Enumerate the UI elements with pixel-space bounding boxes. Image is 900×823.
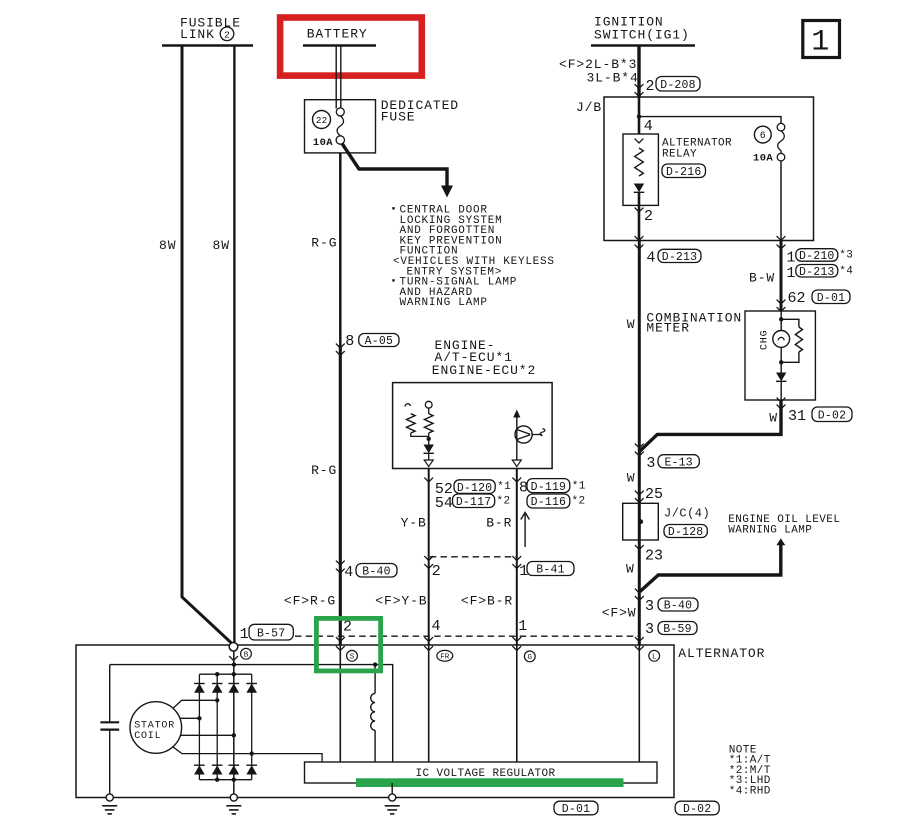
meter diode xyxy=(776,373,786,382)
connector marks at alternator L xyxy=(635,637,644,641)
branch arrow to central door locking note xyxy=(342,144,453,198)
svg-text:*2: *2 xyxy=(572,496,586,508)
node bus to rectifier xyxy=(232,662,236,666)
note text central door locking system xyxy=(392,205,554,310)
ECU input stub xyxy=(405,404,411,407)
node rectifier bottom bus b xyxy=(232,778,236,782)
svg-text:D-210: D-210 xyxy=(799,250,835,263)
connector marks at combination meter input xyxy=(777,300,786,304)
wire alternator FR internal xyxy=(428,645,430,762)
svg-text:2: 2 xyxy=(644,208,653,225)
svg-text:BATTERY: BATTERY xyxy=(307,27,368,42)
svg-text:2: 2 xyxy=(224,29,230,40)
wire meter output xyxy=(780,381,782,400)
ground G1 xyxy=(106,794,113,801)
connector marks at A-05 xyxy=(336,344,345,348)
svg-text:1: 1 xyxy=(811,25,829,59)
svg-text:3: 3 xyxy=(645,621,654,638)
ignition switch bus bar xyxy=(591,44,695,46)
svg-text:D-128: D-128 xyxy=(668,526,704,539)
regulator ground stub xyxy=(391,783,393,798)
alternator box xyxy=(76,645,674,798)
svg-text:31: 31 xyxy=(788,408,806,425)
field coil (rotor) xyxy=(371,665,375,762)
svg-text:A-05: A-05 xyxy=(365,335,393,348)
connector marks at alternator S xyxy=(336,637,345,641)
current direction arrow B-R xyxy=(521,513,530,548)
svg-text:6: 6 xyxy=(760,131,766,142)
connector marks at D-210 right xyxy=(777,236,786,240)
connector marks at B-40 xyxy=(336,561,345,565)
svg-text:R-G: R-G xyxy=(311,463,337,478)
svg-text:Y-B: Y-B xyxy=(401,515,427,530)
svg-text:IC VOLTAGE REGULATOR: IC VOLTAGE REGULATOR xyxy=(415,768,555,780)
title ENGINE A/T-ECU ENGINE-ECU xyxy=(432,338,536,378)
wire alternator B internal xyxy=(233,651,235,797)
fuse element symbol (J/B fuse) xyxy=(777,123,785,161)
wire IG1 inside J/B xyxy=(638,97,641,134)
svg-text:ENGINE-ECU*2: ENGINE-ECU*2 xyxy=(432,363,536,378)
wire branch to relay fuse xyxy=(639,117,781,124)
svg-text:G: G xyxy=(528,654,533,662)
wire B-W to combination meter xyxy=(780,241,783,312)
svg-text:D-01: D-01 xyxy=(817,292,845,305)
dashed harness boundary upper xyxy=(430,556,518,558)
svg-text:1: 1 xyxy=(786,249,795,266)
svg-text:WARNING LAMP: WARNING LAMP xyxy=(400,297,488,309)
ground G2 xyxy=(230,794,237,801)
terminal B circle xyxy=(229,643,238,652)
svg-text:LINK: LINK xyxy=(180,27,215,42)
svg-text:FUSE: FUSE xyxy=(381,110,416,125)
wire 8W right (fusible link to alternator B) xyxy=(233,46,235,644)
svg-text:D-02: D-02 xyxy=(683,803,711,816)
stator phase wire 2 xyxy=(180,716,202,720)
arrow to engine oil level warning lamp xyxy=(776,538,785,545)
node ECU resistor junction xyxy=(427,433,431,445)
stator coil xyxy=(130,702,182,754)
title IGNITION SWITCH(IG1) xyxy=(594,15,690,43)
node CHG top xyxy=(779,317,783,321)
node J/C(4) center xyxy=(638,519,643,524)
note block *1 A/T *2 M/T *3 LHD *4 RHD xyxy=(729,744,771,797)
svg-text:D-208: D-208 xyxy=(660,79,696,92)
connector marks at meter output xyxy=(777,398,786,402)
svg-text:3: 3 xyxy=(646,455,655,472)
ECU lamp terminal circle xyxy=(425,401,432,413)
svg-text:22: 22 xyxy=(316,115,328,126)
svg-text:D-120: D-120 xyxy=(457,482,493,495)
fuse number 22 circled xyxy=(313,111,331,129)
connector marks at D-213 left xyxy=(635,236,644,240)
connector D-128 xyxy=(664,525,707,540)
svg-text:D-213: D-213 xyxy=(662,251,698,264)
stator phase wire 4 to regulator xyxy=(173,747,322,762)
relay diode xyxy=(634,184,644,193)
green highlight bar xyxy=(356,778,624,787)
svg-text:J/B: J/B xyxy=(576,100,602,115)
svg-text:2: 2 xyxy=(343,619,352,636)
svg-text:FR: FR xyxy=(440,653,450,661)
green highlight box at terminal S xyxy=(316,618,380,671)
terminal label FR xyxy=(437,650,453,661)
rectifier diode bottom 3 xyxy=(229,764,240,766)
svg-text:L: L xyxy=(652,654,657,662)
node J/B branch junction xyxy=(637,114,641,118)
svg-text:*4: *4 xyxy=(839,266,853,278)
svg-text:4: 4 xyxy=(644,118,653,135)
svg-text:COIL: COIL xyxy=(134,731,161,742)
svg-text:23: 23 xyxy=(645,548,663,565)
wire thick oil lamp branch xyxy=(640,545,781,592)
connector D-216 xyxy=(662,164,706,179)
svg-text:2: 2 xyxy=(646,78,655,95)
connector mark below terminal B xyxy=(229,656,238,660)
svg-text:3: 3 xyxy=(645,598,654,615)
node rectifier bottom bus a xyxy=(215,778,219,782)
label ENGINE OIL LEVEL WARNING LAMP xyxy=(728,514,840,537)
svg-text:*2: *2 xyxy=(497,496,511,508)
svg-text:W: W xyxy=(769,411,778,426)
svg-text:*1: *1 xyxy=(572,481,586,493)
svg-text:SWITCH(IG1): SWITCH(IG1) xyxy=(594,28,690,43)
svg-text:D-119: D-119 xyxy=(531,481,567,494)
rectifier diode top 4 xyxy=(246,683,257,685)
ECU pin 8 open terminal xyxy=(512,460,521,467)
svg-text:<F>R-G: <F>R-G xyxy=(284,593,336,608)
capacitor C1 xyxy=(100,665,119,798)
svg-text:1: 1 xyxy=(518,618,527,635)
svg-text:2: 2 xyxy=(432,563,441,580)
combination meter box xyxy=(745,311,815,400)
rectifier diode bottom 4 xyxy=(246,764,257,766)
pin 1 and connector D-213 *4 xyxy=(786,265,795,282)
battery bus bar xyxy=(303,44,376,47)
svg-text:4: 4 xyxy=(344,564,353,581)
node bus to field coil xyxy=(373,662,377,666)
rectifier diode top 2 xyxy=(212,683,223,685)
svg-text:*1: *1 xyxy=(497,481,511,493)
wire alternator S internal xyxy=(339,645,341,762)
label DEDICATED FUSE xyxy=(381,98,459,125)
svg-text:62: 62 xyxy=(788,290,806,307)
svg-text:J/C(4): J/C(4) xyxy=(664,507,710,521)
svg-text:B-R: B-R xyxy=(486,515,512,530)
rectifier diode top 3 xyxy=(229,683,240,685)
dedicated fuse box xyxy=(305,100,376,153)
stator phase wire 3 xyxy=(180,733,236,737)
title FUSIBLE LINK 2 xyxy=(180,16,241,43)
terminal label S xyxy=(347,650,358,661)
svg-text:<F>B-R: <F>B-R xyxy=(461,593,513,608)
fuse number 6 circled xyxy=(754,126,771,143)
charge warning lamp CHG xyxy=(773,331,790,348)
joint connector J/C(4) box xyxy=(623,503,659,540)
connector D-01 bottom xyxy=(554,801,598,816)
wire battery feed double line xyxy=(336,46,341,109)
ground G3 xyxy=(389,794,396,801)
rectifier diode top 1 xyxy=(194,683,205,685)
rectifier diode bottom 2 xyxy=(212,764,223,766)
wire W junction block to alternator L xyxy=(638,241,641,646)
svg-text:*3: *3 xyxy=(839,250,853,262)
ECU pull-up resistor left xyxy=(406,414,428,437)
resistor CHG bypass xyxy=(781,319,802,362)
alternator relay box xyxy=(623,134,658,205)
svg-text:10A: 10A xyxy=(313,137,333,149)
connector marks at B-40 right xyxy=(635,589,644,593)
pin 8 and connector A-05 xyxy=(345,333,354,350)
svg-text:B-41: B-41 xyxy=(536,564,564,577)
connector marks at D-208 xyxy=(635,84,644,88)
ECU pin 52 open terminal xyxy=(424,453,433,466)
title COMBINATION METER xyxy=(646,310,742,335)
wire IG1 feed xyxy=(637,46,640,98)
connector mark ECU pin 8 xyxy=(512,478,521,482)
svg-text:STATOR: STATOR xyxy=(134,720,175,731)
svg-text:54: 54 xyxy=(435,495,453,512)
svg-text:D-216: D-216 xyxy=(666,166,702,179)
connector mark relay bottom xyxy=(635,208,644,212)
svg-text:D-117: D-117 xyxy=(456,496,492,509)
svg-text:W: W xyxy=(626,562,635,577)
rectifier bridge frame xyxy=(199,674,251,780)
svg-text:B-57: B-57 xyxy=(257,627,285,640)
svg-text:W: W xyxy=(627,471,636,486)
wire internal B+ bus xyxy=(110,665,393,762)
svg-text:B-W: B-W xyxy=(749,271,775,286)
svg-text:D-116: D-116 xyxy=(531,496,567,509)
svg-text:8W: 8W xyxy=(213,238,230,253)
svg-text:1: 1 xyxy=(240,626,249,643)
connector D-116 *2 xyxy=(527,494,570,509)
svg-text:METER: METER xyxy=(646,321,690,336)
svg-text:3L-B*4: 3L-B*4 xyxy=(587,71,639,86)
connector marks B-R at B-41 xyxy=(512,556,521,560)
fuse element symbol (dedicated fuse) xyxy=(336,108,344,144)
connector D-02 bottom xyxy=(675,801,719,816)
wire Y-B ECU to alternator FR xyxy=(428,469,430,646)
svg-text:1: 1 xyxy=(786,265,795,282)
engine ECU box xyxy=(393,383,552,469)
svg-text:B-59: B-59 xyxy=(663,623,691,636)
fusible link bus bar xyxy=(162,44,253,47)
node rectifier top bus a xyxy=(215,672,219,676)
rectifier diode bottom 1 xyxy=(194,764,205,766)
svg-text:B: B xyxy=(244,652,249,660)
svg-text:25: 25 xyxy=(645,486,663,503)
wire CHG lamp to diode xyxy=(780,347,782,372)
connector marks at E-13 xyxy=(635,444,644,448)
wire 8W left (fusible link to alternator B) xyxy=(182,46,233,645)
svg-text:D-02: D-02 xyxy=(818,409,846,422)
ECU pull-up resistor right xyxy=(424,414,433,433)
ECU diode xyxy=(424,445,434,454)
connector marks at alternator FR xyxy=(424,637,433,641)
svg-text:E-13: E-13 xyxy=(664,456,692,469)
pin 1 and connector D-210 *3 xyxy=(786,249,795,266)
svg-text:D-213: D-213 xyxy=(799,266,835,279)
connector marks at alternator G xyxy=(512,637,521,641)
label ALTERNATOR RELAY xyxy=(662,138,732,161)
junction block J/B box xyxy=(604,97,814,241)
connector mark ECU pin 52 xyxy=(424,478,433,482)
node rectifier top bus b xyxy=(232,672,236,676)
svg-text:R-G: R-G xyxy=(311,235,337,250)
svg-text:B-40: B-40 xyxy=(362,565,390,578)
connector marks above J/C xyxy=(635,491,644,495)
svg-text:10A: 10A xyxy=(753,153,773,165)
stator phase wire 1 xyxy=(173,698,220,708)
svg-text:*4:RHD: *4:RHD xyxy=(729,786,771,798)
transistor Q1 ECU xyxy=(513,410,545,461)
page number 1 box xyxy=(803,21,840,60)
svg-text:<F>W: <F>W xyxy=(602,605,637,620)
svg-text:WARNING LAMP: WARNING LAMP xyxy=(728,524,812,536)
connector mark below J/C xyxy=(635,545,644,549)
svg-text:D-01: D-01 xyxy=(562,803,590,816)
svg-text:<F>Y-B: <F>Y-B xyxy=(375,593,427,608)
svg-text:S: S xyxy=(350,654,355,662)
relay coil resistor xyxy=(635,148,644,176)
node CHG bottom xyxy=(779,360,783,364)
svg-text:8: 8 xyxy=(345,333,354,350)
wire thick meter to E-13 junction xyxy=(639,400,781,452)
connector mark relay top xyxy=(635,139,644,143)
dashed harness boundary lower xyxy=(295,635,639,637)
svg-text:4: 4 xyxy=(646,249,655,266)
svg-text:W: W xyxy=(627,317,636,332)
terminal label B xyxy=(241,648,252,659)
svg-text:8W: 8W xyxy=(159,238,176,253)
svg-text:ALTERNATOR: ALTERNATOR xyxy=(678,646,765,661)
svg-text:4: 4 xyxy=(432,618,441,635)
wire alternator L internal xyxy=(638,645,640,762)
wire R-G battery to alternator S terminal xyxy=(339,153,342,646)
wire fuse to J/B bottom xyxy=(780,160,782,240)
wire relay output xyxy=(638,192,641,240)
wire into CHG lamp xyxy=(780,311,782,331)
connector marks Y-B at B-40 row xyxy=(424,556,433,560)
svg-text:CHG: CHG xyxy=(760,330,771,350)
battery red highlight box xyxy=(280,18,422,76)
IC voltage regulator box xyxy=(305,762,658,783)
wire alternator G internal xyxy=(516,645,518,762)
svg-text:RELAY: RELAY xyxy=(662,149,697,161)
terminal label G xyxy=(524,651,535,662)
wire B-R ECU to alternator G xyxy=(516,469,518,646)
terminal label L xyxy=(649,650,660,661)
svg-text:B-40: B-40 xyxy=(664,600,692,613)
